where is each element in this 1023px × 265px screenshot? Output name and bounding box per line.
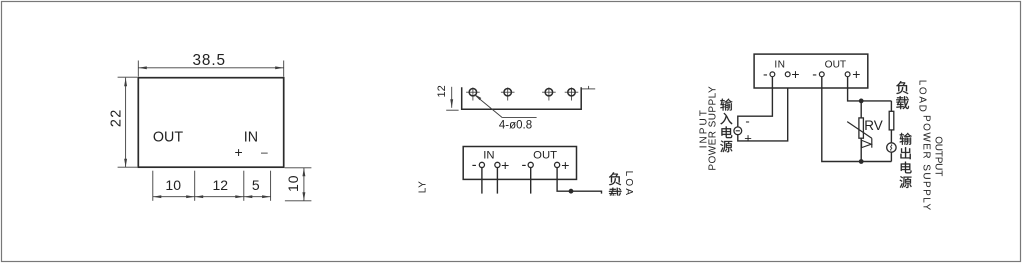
svg-text:POWER SUPPLY: POWER SUPPLY — [920, 115, 931, 212]
clipped labels 负载/LOAD/LY — [418, 171, 634, 207]
svg-text:+: + — [744, 130, 752, 145]
terminal IN- (mid) — [472, 157, 485, 173]
dim 38.5 — [138, 52, 283, 77]
svg-text:LOAD: LOAD — [623, 171, 634, 207]
terminal IN- — [763, 66, 775, 82]
pin 1 — [466, 88, 480, 101]
terminal OUT+ (mid) — [555, 157, 570, 173]
svg-text:OUT: OUT — [153, 129, 183, 145]
junction dot bottom — [859, 160, 863, 164]
label OUT (right) — [825, 59, 847, 70]
SSR box — [754, 54, 868, 88]
svg-text:+: + — [852, 66, 860, 82]
wire OUT+ rail — [848, 77, 892, 101]
label IN (mid) — [483, 149, 494, 161]
svg-text:IN: IN — [244, 129, 258, 145]
terminal OUT- (mid) — [521, 157, 533, 173]
polarity - (input) — [745, 113, 749, 128]
polarity + (input) — [744, 130, 752, 145]
svg-text:POWER SUPPLY: POWER SUPPLY — [708, 86, 719, 171]
dim lines 10/12/5 — [153, 171, 271, 201]
load resistor body — [889, 111, 894, 130]
svg-text:OUTPUT: OUTPUT — [933, 136, 944, 176]
wire OUT+ to load — [557, 168, 601, 194]
dim 12 text — [213, 177, 229, 193]
svg-text:–: – — [261, 145, 268, 159]
svg-text:-: - — [745, 113, 749, 128]
strip right tick — [581, 86, 595, 89]
svg-text:-: - — [521, 157, 526, 173]
pin 2 — [501, 88, 515, 101]
wire IN- to source — [738, 77, 773, 127]
svg-text:OUT: OUT — [825, 59, 847, 70]
input power source — [734, 127, 742, 135]
wire varistor branch — [860, 101, 862, 162]
label RV — [864, 118, 883, 133]
wire to load — [890, 101, 892, 111]
label IN — [244, 129, 258, 145]
label POWER SUPPLY (output) — [920, 115, 931, 212]
module outline — [138, 78, 283, 168]
polarity + — [235, 144, 243, 160]
label IN (right) — [774, 59, 785, 70]
junction dot top — [859, 99, 863, 103]
pin 3 — [542, 88, 556, 101]
svg-text:RV: RV — [864, 118, 883, 133]
svg-text:10: 10 — [285, 174, 301, 192]
label 输出电源 — [900, 133, 912, 188]
svg-text:12: 12 — [436, 85, 448, 97]
wire OUT- rail — [822, 77, 892, 162]
terminal box — [463, 147, 576, 180]
wire source to IN+ — [738, 89, 788, 141]
label 负载 — [896, 81, 909, 109]
wire load to source — [890, 130, 892, 143]
label POWER SUPPLY (input) — [708, 86, 719, 171]
terminal IN+ (mid) — [495, 157, 509, 173]
svg-text:-: - — [472, 157, 477, 173]
svg-text:+: + — [791, 66, 799, 82]
svg-text:-: - — [763, 66, 768, 82]
label OUTPUT — [933, 136, 944, 176]
svg-text:38.5: 38.5 — [193, 52, 226, 69]
label LOAD — [916, 80, 927, 114]
svg-text:22: 22 — [109, 109, 125, 128]
polarity - — [261, 145, 268, 159]
junction dot (mid) — [569, 189, 573, 193]
svg-text:+: + — [561, 157, 569, 173]
svg-text:LY: LY — [418, 181, 429, 194]
label INPUT — [699, 108, 710, 148]
svg-text:12: 12 — [213, 177, 229, 193]
svg-text:IN: IN — [483, 149, 494, 161]
svg-text:10: 10 — [165, 177, 181, 193]
svg-text:+: + — [235, 144, 243, 160]
label 输入电源 — [720, 99, 732, 153]
leader 4-ø0.8 — [473, 93, 536, 132]
svg-text:OUT: OUT — [533, 149, 557, 161]
svg-text:4-ø0.8: 4-ø0.8 — [499, 120, 532, 132]
dim 22 — [109, 77, 138, 167]
svg-text:5: 5 — [252, 177, 260, 193]
svg-text:-: - — [812, 66, 817, 82]
varistor RV body — [859, 118, 864, 138]
label OUT — [153, 129, 183, 145]
pin 4 — [565, 88, 579, 101]
terminal OUT+ — [845, 66, 860, 82]
varistor arrow — [847, 122, 872, 148]
wire IN+ lead — [496, 168, 498, 194]
dim 12 — [436, 85, 459, 110]
wire IN- lead — [481, 168, 483, 194]
wire OUT- lead — [530, 168, 532, 194]
terminal OUT- — [812, 66, 824, 82]
dim 10 text — [165, 177, 181, 193]
dim 10 (pin length) — [285, 168, 312, 201]
label OUT (mid) — [533, 149, 557, 161]
svg-text:IN: IN — [774, 59, 785, 70]
svg-text:LOAD: LOAD — [916, 80, 927, 114]
terminal IN+ — [785, 66, 799, 82]
wire source to rail — [890, 152, 892, 161]
dim 5 text — [252, 177, 260, 193]
svg-text:+: + — [501, 157, 509, 173]
pin strip outline — [462, 87, 582, 109]
output power source — [887, 143, 896, 152]
